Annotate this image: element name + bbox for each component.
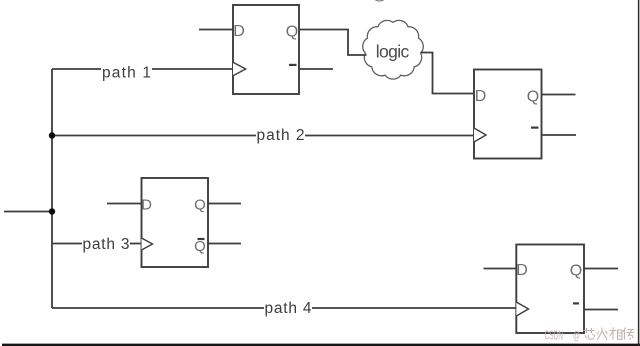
svg-text:path 2: path 2 — [257, 127, 305, 144]
svg-text:Q: Q — [194, 238, 206, 255]
watermark chinese chars (stroke approximation) — [584, 328, 635, 340]
svg-text:@: @ — [573, 329, 580, 343]
svg-text:path 3: path 3 — [83, 236, 130, 253]
svg-text:D: D — [141, 197, 152, 214]
wire path1 left segment — [52, 68, 101, 70]
svg-text:D: D — [233, 23, 245, 40]
wire main input — [4, 211, 52, 213]
svg-text:Q: Q — [570, 263, 582, 280]
wire U4 D input stub — [484, 268, 517, 270]
U2 clock triangle — [474, 128, 486, 142]
wire U1 Q to cloud — [299, 30, 367, 56]
wire path1 right segment to U1 clock — [152, 68, 233, 70]
watermark CSDN @ — [545, 329, 581, 343]
svg-text:Q: Q — [286, 24, 298, 41]
char chuan — [623, 328, 634, 340]
screenshot bottom border line — [2, 344, 640, 346]
wire U3 Q output stub — [208, 203, 241, 205]
char xiang — [610, 328, 623, 340]
wire U4 Q output stub — [584, 268, 618, 270]
wire path2 left segment — [52, 135, 256, 137]
wire U3 Qbar output stub — [208, 243, 241, 245]
U1 Qbar overline mark — [289, 64, 297, 66]
wire path3 left segment — [52, 243, 82, 245]
junction dot main input — [49, 208, 55, 214]
U4 Qbar overline mark — [573, 302, 579, 304]
wire U4 Qbar output stub — [584, 309, 618, 311]
flip-flop U4 (bottom-right) box — [516, 245, 584, 334]
char huo — [597, 328, 607, 340]
cropped arc artifact at top edge — [372, 0, 387, 1]
wire cloud to U2 D — [421, 53, 475, 94]
wire trunk vertical — [51, 69, 53, 308]
wire path3 right segment to U3 clock — [130, 243, 142, 245]
logic cloud — [363, 20, 424, 79]
svg-text:Q: Q — [194, 197, 206, 214]
wire U2 Q output stub — [542, 94, 576, 96]
svg-text:D: D — [475, 88, 487, 105]
junction dot path2 — [49, 132, 55, 138]
flip-flop U1 (top) box — [233, 5, 299, 94]
U4 clock triangle — [516, 302, 528, 316]
svg-text:path 1: path 1 — [102, 64, 151, 81]
wire U2 Qbar output stub — [542, 134, 577, 136]
U2 Qbar overline mark — [531, 126, 539, 128]
wire path2 right segment to U2 clock — [305, 135, 474, 137]
U1 clock triangle — [233, 62, 246, 75]
svg-text:CSDN: CSDN — [545, 329, 564, 343]
wire U1 D input stub — [199, 29, 233, 31]
svg-text:D: D — [516, 262, 528, 279]
screenshot right border line — [638, 0, 640, 346]
wire U3 D input stub — [107, 203, 142, 205]
flip-flop U3 (middle-left) box — [142, 178, 209, 267]
svg-text:path 4: path 4 — [265, 300, 312, 317]
wire U1 Qbar stub — [299, 68, 333, 70]
svg-text:logic: logic — [376, 41, 410, 61]
char xin — [584, 328, 596, 339]
wire path4 left segment — [52, 307, 264, 309]
U3 clock triangle — [142, 238, 153, 250]
flip-flop U2 (right) box — [474, 70, 542, 159]
svg-text:Q: Q — [527, 89, 539, 106]
wire path4 right segment to U4 clock — [312, 307, 516, 309]
